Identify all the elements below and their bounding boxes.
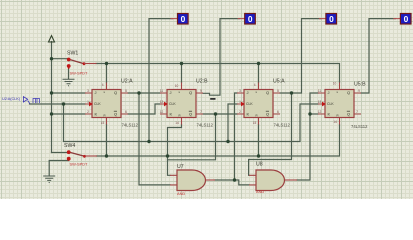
wire U2:B R to U7 input A: [168, 125, 182, 176]
U5:B clock wedge: [322, 102, 326, 107]
svg-text:Q: Q: [347, 111, 350, 116]
flip-flop U5:B 74LS112: [318, 82, 368, 130]
svg-text:0: 0: [248, 14, 253, 24]
svg-text:14: 14: [333, 120, 337, 124]
U2:B clock wedge: [164, 102, 168, 107]
wire junction dots: [50, 57, 312, 182]
wire QC to probe3 riser: [280, 19, 321, 93]
svg-text:R: R: [256, 113, 258, 117]
wire SW1 feed: [52, 58, 69, 60]
svg-text:74LS112: 74LS112: [197, 123, 214, 128]
junction (228,141.5): [226, 140, 229, 143]
svg-text:7: 7: [356, 110, 358, 114]
U2:A clock wedge: [89, 102, 93, 107]
logic probe 4: [393, 14, 411, 25]
black tick mark near QB wire: [210, 98, 215, 100]
wire Q-barB branch down and left to U7 input A riser: [168, 114, 216, 160]
U2:A left pin stubs J CLK K: [85, 93, 92, 114]
U5:B right pin stubs Q Qbar: [354, 93, 361, 114]
switch SW1: [67, 51, 97, 76]
U5:A clock wedge: [241, 102, 245, 107]
U5:B body: [325, 90, 354, 118]
svg-text:Q: Q: [114, 111, 117, 116]
junction (234.5,180): [233, 178, 236, 181]
U2:B body: [167, 90, 196, 118]
junction (258.5,156): [257, 154, 260, 157]
svg-text:6: 6: [125, 110, 127, 114]
wire R riser U2:A: [106, 125, 108, 157]
wire J of U2:A to rail: [52, 92, 86, 94]
wire R riser U5:A: [258, 125, 260, 157]
junction (181.5,63.5): [180, 62, 183, 65]
logic probe 2: [238, 14, 256, 25]
switch SW4: [64, 143, 97, 166]
U5:B left pin stubs J CLK K: [318, 93, 325, 114]
svg-text:U2:B: U2:B: [196, 79, 208, 85]
svg-text:1: 1: [239, 100, 241, 104]
svg-text:J: J: [170, 90, 172, 95]
DCLOCK generator terminal: [2, 96, 40, 104]
svg-text:0: 0: [404, 14, 409, 24]
svg-text:SW4: SW4: [64, 143, 75, 149]
wire QB jog to probe2 riser: [203, 19, 240, 96]
wire U7 output riser up to U5:A J pin: [235, 93, 238, 180]
U5:A body: [244, 90, 273, 118]
junction (258.5,63.5): [257, 62, 260, 65]
junction (106.5,156): [105, 154, 108, 157]
svg-text:CLK: CLK: [94, 102, 101, 106]
wire Q-barB to U5:A K: [203, 113, 237, 115]
svg-text:12: 12: [160, 110, 164, 114]
svg-text:SW-SPDT: SW-SPDT: [70, 71, 88, 76]
svg-text:3: 3: [87, 89, 89, 93]
svg-text:74LS112: 74LS112: [122, 123, 139, 128]
svg-text:J: J: [95, 90, 97, 95]
svg-text:K: K: [95, 111, 98, 116]
svg-text:9: 9: [358, 89, 360, 93]
flip-flop U2:B 74LS112: [160, 79, 214, 128]
wire U7 output to U8 input B: [215, 180, 249, 185]
svg-text:10: 10: [175, 84, 179, 88]
svg-text:6: 6: [277, 110, 279, 114]
svg-text:Q: Q: [347, 90, 350, 95]
wire clock riser down: [64, 104, 319, 142]
junction (63.5,104): [62, 102, 65, 105]
svg-text:13: 13: [318, 100, 322, 104]
svg-text:AND: AND: [177, 191, 185, 196]
junction (51.5,114): [50, 112, 53, 115]
svg-text:15: 15: [101, 121, 105, 125]
junction (310,114): [308, 112, 311, 115]
svg-text:Q: Q: [266, 90, 269, 95]
U2:B left pin stubs J CLK K: [160, 93, 167, 114]
svg-text:15: 15: [253, 121, 257, 125]
svg-text:7: 7: [200, 110, 202, 114]
wire clock branch to U5:A CLK: [228, 104, 237, 142]
svg-text:J: J: [328, 90, 330, 95]
svg-text:9: 9: [200, 89, 202, 93]
wire reset line from SW4 pole to U5:B R pin: [97, 125, 340, 157]
wire QA to U2:B J: [128, 92, 160, 94]
wire K of U2:A to rail: [52, 113, 86, 115]
svg-text:K: K: [328, 111, 331, 116]
svg-text:4: 4: [102, 83, 104, 87]
svg-text:13: 13: [160, 100, 164, 104]
wire SW4 to ground: [49, 161, 68, 176]
U5:A right pin stubs Q Qbar: [273, 93, 280, 114]
junction (106.5,63.5): [105, 62, 108, 65]
svg-text:14: 14: [175, 121, 179, 125]
wire U8 output up to U5:B J and K: [297, 93, 318, 180]
svg-text:U5:A: U5:A: [273, 79, 285, 85]
wire branch to U5:B K: [310, 113, 318, 115]
junction (51.5,58.7): [50, 57, 53, 60]
wire QC branch to U8 input A: [249, 93, 292, 175]
wire probe1 riser: [149, 19, 173, 142]
svg-text:11: 11: [160, 89, 164, 93]
power terminal arrow: [49, 36, 55, 42]
U2:B right pin stubs Q Qbar: [196, 93, 203, 114]
junction (215.5,114): [214, 112, 217, 115]
svg-text:CLK: CLK: [169, 102, 176, 106]
wire Q-barA to U2:B CLK jog: [128, 104, 160, 114]
svg-text:11: 11: [318, 89, 322, 93]
svg-text:10: 10: [333, 82, 337, 86]
svg-text:U5:B: U5:B: [354, 82, 366, 88]
svg-text:2: 2: [239, 110, 241, 114]
svg-text:4: 4: [254, 83, 256, 87]
wire SW4 feed: [52, 152, 69, 154]
wire QD to probe4: [361, 19, 395, 93]
logic probe 3: [319, 14, 337, 25]
svg-text:3: 3: [239, 89, 241, 93]
svg-text:5: 5: [277, 89, 279, 93]
svg-text:SW-SPDT: SW-SPDT: [70, 162, 88, 167]
svg-text:K: K: [170, 111, 173, 116]
U2:B set/reset pin stubs: [181, 83, 183, 125]
wire S riser U2:B: [181, 64, 183, 83]
junction (139,93): [137, 91, 140, 94]
svg-text:74LS112: 74LS112: [274, 123, 291, 128]
logic probe 1: [171, 14, 189, 25]
svg-text:R: R: [179, 113, 181, 117]
svg-text:CLK: CLK: [327, 102, 334, 106]
svg-text:12: 12: [318, 110, 322, 114]
U2:A right pin stubs Q Qbar: [121, 93, 128, 114]
U2:A body: [92, 90, 121, 118]
wire S riser U2:A: [106, 64, 108, 83]
ground symbol below SW4: [43, 176, 55, 183]
wire S riser U5:A: [258, 64, 260, 83]
svg-text:Q: Q: [189, 90, 192, 95]
svg-text:1: 1: [87, 100, 89, 104]
wire QA branch to U7 input B: [139, 93, 170, 185]
svg-text:R: R: [337, 113, 339, 117]
U5:A left pin stubs J CLK K: [237, 93, 244, 114]
svg-text:2: 2: [87, 110, 89, 114]
ground symbol below SW1: [63, 79, 75, 86]
wire power rail: [51, 42, 53, 153]
junction (291.5,93): [290, 91, 293, 94]
svg-text:J: J: [247, 90, 249, 95]
svg-text:AND: AND: [256, 189, 264, 194]
wire DCLOCK to U2:A CLK: [30, 103, 86, 105]
wire SW1 ground stem: [68, 69, 70, 79]
U2:A set/reset pin stubs: [106, 83, 108, 125]
junction (149,141.5): [147, 140, 150, 143]
junction (167.5,156): [166, 154, 169, 157]
svg-text:Q: Q: [266, 111, 269, 116]
svg-text:U8: U8: [256, 162, 263, 168]
svg-text:K: K: [247, 111, 250, 116]
svg-text:U7: U7: [177, 164, 184, 170]
wire set bus SW1 pole to U5:B S pin: [96, 64, 340, 83]
svg-text:Q: Q: [114, 90, 117, 95]
svg-text:5: 5: [125, 89, 127, 93]
svg-text:SW1: SW1: [67, 51, 78, 57]
svg-text:U2:A: U2:A: [121, 79, 133, 85]
svg-text:0: 0: [181, 14, 186, 24]
AND gate U8: [249, 162, 297, 194]
U5:B set/reset pin stubs: [339, 83, 341, 125]
svg-text:74LS112: 74LS112: [351, 124, 368, 129]
svg-text:0: 0: [329, 14, 334, 24]
svg-text:R: R: [104, 113, 106, 117]
svg-text:CLK: CLK: [246, 102, 253, 106]
svg-text:Q: Q: [189, 111, 192, 116]
AND gate U7: [170, 164, 215, 196]
flip-flop U5:A 74LS112: [237, 79, 291, 128]
U5:A set/reset pin stubs: [258, 83, 260, 125]
junction (51.5,93): [50, 91, 53, 94]
svg-text:U2:A(CLK): U2:A(CLK): [2, 96, 21, 101]
flip-flop U2:A 74LS112: [85, 79, 139, 128]
